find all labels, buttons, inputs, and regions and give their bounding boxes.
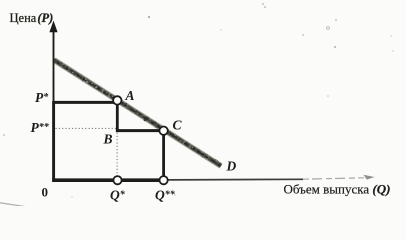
y-axis lower thick segment <box>52 101 55 182</box>
dotted quantity line Q* <box>116 133 118 177</box>
svg-text:C: C <box>173 118 183 133</box>
svg-text:P**: P** <box>31 120 50 135</box>
svg-text:Цена(P): Цена(P) <box>10 11 54 25</box>
x-axis mid segment <box>168 178 303 181</box>
svg-text:D: D <box>226 159 237 174</box>
svg-text:A: A <box>125 88 135 103</box>
point Q** on axis <box>160 176 168 184</box>
price line P* to A <box>53 101 118 104</box>
x-axis arrowhead <box>364 175 375 180</box>
y-axis <box>53 31 55 181</box>
x-axis thick segment <box>52 178 168 182</box>
segment A-B <box>116 101 119 132</box>
svg-text:B: B <box>103 132 113 147</box>
svg-text:0: 0 <box>42 185 49 200</box>
segment C to Q** <box>162 131 165 181</box>
point Q* on axis <box>113 176 121 184</box>
segment B-C <box>116 129 164 132</box>
y-axis arrowhead <box>49 21 57 33</box>
x-axis faint dashed segment <box>303 178 364 179</box>
dotted price line P** <box>56 127 117 129</box>
point C <box>159 127 167 135</box>
svg-text:Объем выпуска (Q): Объем выпуска (Q) <box>284 182 391 197</box>
svg-text:Q*: Q* <box>110 188 126 203</box>
demand curve D (textured scanned line) <box>54 60 221 166</box>
svg-text:P*: P* <box>35 90 49 105</box>
point A <box>113 96 121 104</box>
svg-text:Q**: Q** <box>155 188 176 203</box>
